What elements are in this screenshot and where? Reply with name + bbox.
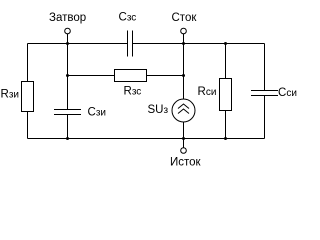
svg-text:SUз: SUз	[148, 104, 169, 116]
wire gate vertical upper	[67, 44, 69, 110]
junction drain / top rail	[182, 42, 185, 45]
wire left branch lower	[27, 112, 29, 139]
terminal Затвор (gate)	[65, 28, 71, 34]
wire Rzs branch right	[147, 75, 184, 77]
junction Czi / bottom rail	[66, 137, 69, 140]
junction source / bottom rail	[182, 137, 185, 140]
wire right branch lower	[264, 96, 266, 139]
terminal Исток (source)	[181, 148, 187, 154]
capacitor Czi plates	[54, 110, 81, 115]
wire drain vertical to current source	[183, 44, 185, 100]
terminal Сток (drain)	[181, 28, 187, 34]
current source SUз circle	[172, 99, 195, 122]
junction gate / top rail	[66, 42, 69, 45]
svg-text:Сси: Сси	[278, 87, 297, 99]
wire Rsi branch upper	[225, 44, 227, 79]
wire source terminal lead	[183, 139, 185, 148]
svg-text:Rзс: Rзс	[124, 86, 142, 98]
wire bottom rail	[28, 138, 265, 140]
wire current source to bottom rail	[183, 122, 185, 139]
svg-text:Сзс: Сзс	[119, 12, 137, 24]
svg-text:Rси: Rси	[198, 86, 217, 98]
svg-text:Сток: Сток	[172, 12, 198, 24]
resistor Rzs	[115, 70, 147, 82]
wire right branch upper	[264, 44, 266, 91]
capacitor Csi plates	[251, 91, 278, 96]
junction Rsi / bottom rail	[224, 137, 227, 140]
wire Rzs branch left	[68, 75, 115, 77]
wire gate vertical lower	[67, 115, 69, 139]
current source SUз chevrons	[178, 104, 189, 114]
capacitor Czs plates	[128, 31, 133, 57]
junction drain line / Rzs branch	[182, 74, 185, 77]
junction Rsi / top rail	[224, 42, 227, 45]
svg-text:Исток: Исток	[170, 157, 202, 169]
svg-text:Сзи: Сзи	[88, 106, 106, 118]
resistor Rzi	[22, 82, 34, 112]
svg-text:Затвор: Затвор	[49, 12, 86, 24]
resistor Rsi	[220, 79, 232, 111]
svg-text:Rзи: Rзи	[1, 89, 19, 101]
wire drain terminal lead	[183, 34, 185, 44]
junction gate line / Rzs branch	[66, 74, 69, 77]
wire left branch upper	[27, 44, 29, 82]
wire gate terminal lead	[67, 34, 69, 44]
wire Rsi branch lower	[225, 111, 227, 139]
wire top rail left segment	[28, 43, 128, 45]
wire top rail right segment	[133, 43, 265, 45]
